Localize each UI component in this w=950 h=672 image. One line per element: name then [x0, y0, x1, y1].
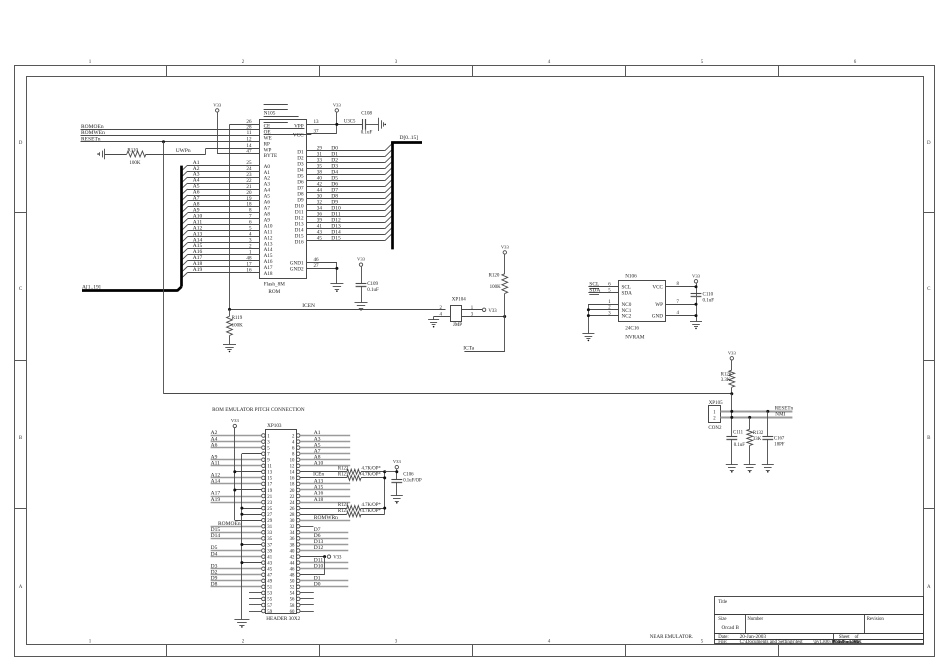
wire V33 down to BYTE row	[217, 112, 219, 153]
svg-text:25: 25	[267, 507, 272, 512]
svg-text:47: 47	[267, 574, 272, 579]
pin 12 circle of XP103	[296, 464, 300, 468]
data bus D[0..15] horizontal segment	[391, 141, 422, 144]
svg-text:ROM EMULATOR PITCH CONNECTION: ROM EMULATOR PITCH CONNECTION	[212, 407, 305, 413]
wire D14 from pin D15 to data bus	[307, 234, 385, 236]
pin 26 circle of XP103	[296, 506, 300, 510]
pin 41 circle of XP103	[262, 555, 266, 559]
wire D12 from XP103 pin 40	[300, 550, 348, 552]
wire XP103 pin 16 stub	[300, 526, 313, 528]
svg-text:Number: Number	[747, 617, 763, 622]
pin 29 circle of XP103	[262, 518, 266, 522]
ground symbol below R119	[223, 344, 236, 346]
pin 4 circle of XP103	[296, 440, 300, 444]
capacitor C106	[391, 479, 402, 481]
pin 42 circle of XP103	[296, 555, 300, 559]
svg-text:11: 11	[267, 465, 272, 470]
svg-text:V33: V33	[333, 103, 342, 108]
svg-text:27: 27	[267, 513, 272, 518]
flash ROM N105 chip body	[260, 120, 307, 279]
svg-text:D4: D4	[211, 551, 218, 557]
wire D11 from pin D12 to data bus	[307, 216, 385, 218]
ground symbol below C106	[391, 495, 403, 497]
wire A13 from address bus to pin A12	[188, 236, 260, 238]
wire A18 from address bus to pin A17	[188, 266, 260, 268]
svg-text:45: 45	[267, 568, 272, 573]
wire A15 from XP103 pin 20	[300, 489, 350, 491]
pin 9 circle of XP103	[262, 458, 266, 462]
resistor R132	[747, 429, 753, 445]
wire D5 from pin D6 to data bus	[307, 180, 385, 182]
wire V33 riser to pin 29	[235, 520, 262, 522]
wire UWPn jog up to WP pin	[205, 148, 207, 154]
junction V33/VPP	[335, 123, 338, 126]
svg-text:D6: D6	[314, 533, 321, 539]
wire A14 to XP103 pin 17	[211, 483, 262, 485]
pin 28 circle of XP103	[296, 512, 300, 516]
pin 11 circle of XP103	[262, 464, 266, 468]
junction V33 pin 19	[233, 489, 236, 492]
junction ground pin 25	[240, 507, 243, 510]
wire A12 from address bus to pin A11	[188, 230, 260, 232]
wire R119 to ground	[229, 336, 231, 345]
pin 8 circle of XP103	[296, 452, 300, 456]
pin 36 circle of XP103	[296, 537, 300, 541]
svg-text:C110: C110	[703, 293, 714, 298]
svg-text:4.7K/OP*: 4.7K/OP*	[362, 473, 382, 478]
capacitor C110	[691, 293, 702, 295]
power symbol V33 at pin 42	[327, 555, 330, 558]
stub wire XP103 pin 56	[300, 598, 314, 600]
wire A17 from address bus to pin A16	[188, 260, 260, 262]
svg-text:44: 44	[290, 561, 295, 566]
junction R122 rail	[383, 470, 386, 473]
svg-text:BYTE: BYTE	[264, 153, 278, 159]
wire GND pin 4	[666, 315, 696, 317]
wire D11 from XP103 pin 44	[300, 562, 348, 564]
pin 16 circle of XP103	[296, 476, 300, 480]
ground symbol below N106	[690, 321, 702, 323]
wire V33 to BYTE pin	[217, 153, 259, 155]
wire CE riser down to ICEN net	[229, 124, 231, 309]
svg-text:A13: A13	[314, 479, 324, 485]
junction V33 pin 13	[233, 470, 236, 473]
junction ground pin 27	[240, 513, 243, 516]
svg-text:13: 13	[267, 471, 272, 476]
wire A8 from XP103 pin 10	[300, 459, 350, 461]
junction R123 rail	[383, 476, 386, 479]
svg-text:D[0..15]: D[0..15]	[400, 135, 419, 141]
svg-text:18PF: 18PF	[774, 443, 784, 448]
wire D9 to XP103 pin 49	[211, 580, 262, 582]
wire D10 from XP103 pin 46	[300, 568, 348, 570]
wire R126 to RESETn junction	[731, 387, 733, 394]
wire D7 from pin D8 to data bus	[307, 192, 385, 194]
wire A16 from XP103 pin 22	[300, 496, 350, 498]
svg-text:Size: Size	[718, 617, 726, 622]
svg-text:Flash_8M: Flash_8M	[264, 282, 285, 288]
svg-text:D15: D15	[211, 527, 221, 533]
stub wire XP103 pin 57	[249, 604, 262, 606]
wire A7 from address bus to pin A6	[188, 200, 260, 202]
pin 50 circle of XP103	[296, 579, 300, 583]
svg-text:A11: A11	[211, 461, 221, 467]
wire D1 from XP103 pin 50	[300, 580, 348, 582]
svg-text:ROM: ROM	[268, 289, 280, 295]
wire RESETn riser down left side	[163, 142, 165, 394]
junction C167 on RESETn	[766, 410, 769, 413]
wire NC2 pin 3	[588, 315, 618, 317]
wire D0 from XP103 pin 52	[300, 586, 348, 588]
wire rail to V33/C106	[385, 471, 397, 473]
pin 39 circle of XP103	[262, 549, 266, 553]
pin 33 circle of XP103	[262, 531, 266, 535]
junction ground pin 37	[240, 543, 243, 546]
svg-text:VCC: VCC	[293, 133, 304, 139]
wire D6 from XP103 pin 36	[300, 538, 348, 540]
svg-text:UWPn: UWPn	[176, 148, 191, 154]
svg-text:59: 59	[267, 610, 272, 615]
wire D4 to XP103 pin 41	[211, 556, 262, 558]
wire A4 from address bus to pin A3	[188, 183, 260, 185]
wire C106 to ground	[396, 482, 398, 496]
wire GND riser to ground	[336, 262, 338, 284]
svg-text:NMI: NMI	[775, 412, 785, 418]
svg-text:R120: R120	[489, 273, 500, 278]
svg-text:45: 45	[317, 236, 323, 242]
svg-text:A: A	[927, 585, 931, 590]
svg-text:ROMWEn: ROMWEn	[81, 130, 105, 136]
svg-text:ICEN: ICEN	[302, 303, 315, 309]
wire D9 from pin D10 to data bus	[307, 204, 385, 206]
svg-text:R119: R119	[232, 316, 243, 321]
svg-text:N105: N105	[264, 111, 276, 117]
wire R122 to pull-up rail	[361, 471, 385, 473]
svg-text:35: 35	[267, 537, 272, 542]
svg-text:16: 16	[290, 477, 295, 482]
svg-text:C167: C167	[774, 437, 785, 442]
svg-text:26: 26	[290, 507, 295, 512]
wire XP103 to R122	[300, 471, 347, 473]
svg-text:R110: R110	[127, 148, 138, 153]
wire ground riser to pin 43	[242, 562, 262, 564]
pin 25 circle of XP103	[262, 506, 266, 510]
pin 40 circle of XP103	[296, 549, 300, 553]
wire D13 from pin D14 to data bus	[307, 228, 385, 230]
wire A10 from XP103 pin 12	[300, 465, 350, 467]
svg-text:49: 49	[267, 580, 272, 585]
wire XP105 pin 2 NMI	[720, 417, 792, 419]
ground symbol below R132	[744, 464, 756, 466]
svg-text:C111: C111	[733, 430, 744, 435]
resistor R110	[127, 151, 146, 157]
svg-text:A1: A1	[314, 430, 321, 436]
svg-text:D5: D5	[211, 545, 218, 551]
svg-text:V33: V33	[333, 555, 342, 560]
svg-text:54: 54	[290, 592, 295, 597]
wire GND2 pin	[307, 268, 337, 270]
wire SDA to pin 5	[588, 292, 618, 294]
wire D0 from pin D1 to data bus	[307, 150, 385, 152]
capacitor C111	[726, 436, 737, 438]
ground symbol below flash GND pins	[330, 283, 343, 285]
svg-text:51: 51	[267, 586, 272, 591]
wire R124 to pull-up rail	[361, 508, 385, 510]
svg-text:0.1uF: 0.1uF	[703, 298, 715, 303]
pin 32 circle of XP103	[296, 525, 300, 529]
svg-text:VCC: VCC	[652, 285, 663, 291]
svg-text:R125: R125	[338, 509, 349, 514]
svg-text:D16: D16	[295, 239, 304, 245]
wire A14 from address bus to pin A13	[188, 242, 260, 244]
pin 60 circle of XP103	[296, 609, 300, 613]
svg-text:U3C5: U3C5	[344, 120, 356, 125]
wire C109 to ground	[361, 286, 363, 303]
svg-text:12: 12	[290, 465, 295, 470]
pin 20 circle of XP103	[296, 488, 300, 492]
wire VCC pin 8 to V33	[666, 286, 696, 288]
wire A13 from XP103 pin 18	[300, 483, 350, 485]
wire ground riser to pin 37	[242, 544, 262, 546]
svg-text:R123: R123	[338, 473, 349, 478]
wire V33 riser pin42 to pin48	[324, 557, 326, 575]
jumper XP104 body	[451, 306, 462, 322]
pin 49 circle of XP103	[262, 579, 266, 583]
svg-text:100K: 100K	[490, 285, 502, 290]
wire CE pin stub	[230, 124, 260, 126]
svg-text:ROMOEn: ROMOEn	[218, 521, 241, 527]
wire A5 from XP103 pin 6	[300, 447, 350, 449]
wire D15 to XP103 pin 33	[211, 532, 262, 534]
wire A2 to XP103 pin 1	[211, 435, 262, 437]
svg-text:GND2: GND2	[290, 266, 304, 272]
wire D8 to XP103 pin 51	[211, 586, 262, 588]
pin 6 circle of XP103	[296, 446, 300, 450]
pin 54 circle of XP103	[296, 591, 300, 595]
pin 3 circle of XP103	[262, 440, 266, 444]
svg-text:16: 16	[246, 267, 252, 273]
wire ROMOEn to XP103 pin 31	[211, 526, 262, 528]
svg-text:D7: D7	[314, 527, 321, 533]
svg-text:D8: D8	[211, 582, 218, 588]
svg-text:A10: A10	[314, 461, 324, 467]
address bus A[1..19] horizontal segment	[82, 289, 178, 292]
svg-text:42: 42	[290, 555, 295, 560]
ground symbol left of R110	[104, 149, 106, 160]
svg-text:46: 46	[290, 568, 295, 573]
wire NMI to R132	[749, 417, 751, 429]
pin 51 circle of XP103	[262, 585, 266, 589]
resistor R120	[502, 274, 508, 294]
wire GND1 pin	[307, 262, 337, 264]
wire NC0 pin 1	[588, 304, 618, 306]
pin 15 circle of XP103	[262, 476, 266, 480]
svg-text:4.7K/OP*: 4.7K/OP*	[362, 467, 382, 472]
svg-text:ICEn: ICEn	[313, 472, 324, 478]
wire RESETn to C167	[767, 411, 769, 436]
pin 56 circle of XP103	[296, 597, 300, 601]
svg-text:A9: A9	[211, 454, 218, 460]
svg-text:NearEmu.sch: NearEmu.sch	[834, 639, 860, 644]
svg-text:41: 41	[267, 555, 272, 560]
pin 21 circle of XP103	[262, 494, 266, 498]
pin 5 circle of XP103	[262, 446, 266, 450]
wire NC1 pin 2	[588, 309, 618, 311]
wire C108 to ground	[366, 124, 379, 126]
svg-text:28: 28	[290, 513, 295, 518]
wire VCC pin to V33 riser	[307, 133, 337, 135]
wire A11 to XP103 pin 11	[211, 465, 262, 467]
svg-text:XP103: XP103	[267, 423, 282, 429]
svg-text:HEADER 30X2: HEADER 30X2	[266, 616, 300, 622]
svg-text:SDA: SDA	[622, 291, 633, 297]
svg-text:GND: GND	[652, 314, 663, 320]
svg-text:36: 36	[290, 537, 295, 542]
pin 57 circle of XP103	[262, 603, 266, 607]
junction rail V33	[395, 470, 398, 473]
wire A3 from address bus to pin A2	[188, 177, 260, 179]
junction NC1	[587, 308, 590, 311]
pin 45 circle of XP103	[262, 567, 266, 571]
wire D5 to XP103 pin 39	[211, 550, 262, 552]
pin 27 circle of XP103	[262, 512, 266, 516]
svg-text:32: 32	[290, 525, 295, 530]
svg-text:D11: D11	[314, 557, 324, 563]
svg-text:31: 31	[267, 525, 272, 530]
svg-text:D15: D15	[331, 236, 341, 242]
wire D6 from pin D7 to data bus	[307, 186, 385, 188]
svg-text:A19: A19	[211, 497, 221, 503]
resistor R119	[227, 316, 233, 335]
wire D14 to XP103 pin 35	[211, 538, 262, 540]
junction GND1/GND2	[335, 267, 338, 270]
svg-text:57: 57	[267, 604, 272, 609]
svg-text:48: 48	[290, 574, 295, 579]
wire riser to XP103 pin 48	[300, 574, 325, 576]
svg-text:XP104: XP104	[452, 298, 466, 303]
svg-text:JMP: JMP	[453, 323, 462, 328]
svg-text:A17: A17	[211, 491, 221, 497]
svg-text:30: 30	[290, 519, 295, 524]
wire A5 from address bus to pin A4	[188, 189, 260, 191]
svg-text:24: 24	[290, 501, 295, 506]
title block column dividers	[745, 614, 747, 633]
pin 58 circle of XP103	[296, 603, 300, 607]
wire A2 from address bus to pin A1	[188, 171, 260, 173]
svg-text:A16: A16	[314, 491, 324, 497]
wire ground riser to pin 27	[242, 514, 262, 516]
wire A1 from XP103 pin 2	[300, 435, 350, 437]
wire ROMWEn to WE pin	[81, 135, 260, 137]
pin 14 circle of XP103	[296, 470, 300, 474]
wire ground riser to pin 25	[242, 508, 262, 510]
pin 52 circle of XP103	[296, 585, 300, 589]
stub wire XP103 pin 59	[249, 611, 262, 613]
svg-text:33: 33	[267, 531, 272, 536]
svg-text:D2: D2	[211, 569, 218, 575]
svg-text:XP105: XP105	[709, 401, 723, 406]
svg-text:Orcad B: Orcad B	[722, 625, 740, 631]
svg-text:RESETn: RESETn	[775, 406, 794, 412]
wire ICEN horizontal	[230, 309, 446, 311]
wire A16 from address bus to pin A15	[188, 254, 260, 256]
stub wire XP103 pin 54	[300, 592, 314, 594]
svg-text:D10: D10	[314, 563, 324, 569]
wire A19 to XP103 pin 23	[211, 502, 262, 504]
svg-text:50: 50	[290, 580, 295, 585]
header XP103 body	[266, 430, 297, 614]
svg-text:0.1uF: 0.1uF	[734, 443, 745, 448]
wire R110 to UWPn jog	[146, 154, 206, 156]
svg-text:V33: V33	[501, 245, 510, 250]
wire ICTa horizontal	[464, 351, 504, 353]
wire D7 from XP103 pin 34	[300, 532, 348, 534]
svg-text:NC2: NC2	[622, 314, 632, 320]
junction ICEN/R119	[228, 308, 231, 311]
svg-text:WP: WP	[655, 302, 663, 308]
wire V33 to C106	[396, 469, 398, 479]
frame column ticks bottom	[166, 644, 168, 656]
junction riser on NMI	[730, 416, 733, 419]
pin 48 circle of XP103	[296, 573, 300, 577]
pin 2 circle of XP103	[296, 434, 300, 438]
svg-text:D12: D12	[314, 545, 324, 551]
junction WP row	[695, 303, 698, 306]
svg-text:NVRAM: NVRAM	[625, 335, 645, 341]
svg-text:Title: Title	[718, 600, 727, 605]
svg-text:39: 39	[267, 549, 272, 554]
wire D15 from pin D16 to data bus	[307, 240, 385, 242]
power symbol V33 at XP104 pin 1	[482, 308, 485, 311]
stub wire XP103 pin 53	[249, 592, 262, 594]
resistor R123	[347, 475, 361, 480]
svg-text:58: 58	[290, 604, 295, 609]
connector XP105 body	[709, 406, 721, 423]
wire A15 from address bus to pin A14	[188, 248, 260, 250]
stub wire XP103 pin 55	[249, 598, 262, 600]
svg-text:10: 10	[290, 459, 295, 464]
pin 37 circle of XP103	[262, 543, 266, 547]
wire D4 from pin D5 to data bus	[307, 174, 385, 176]
wire RESETn to RP pin	[81, 141, 260, 143]
svg-text:18: 18	[290, 483, 295, 488]
frame row ticks left	[15, 212, 27, 214]
resistor R126	[729, 370, 735, 387]
wire ground riser from pin 7	[242, 453, 262, 455]
pin 30 circle of XP103	[296, 518, 300, 522]
svg-text:53: 53	[267, 592, 272, 597]
svg-text:R132: R132	[753, 431, 764, 436]
address bus A[1..19] vertical segment	[180, 166, 183, 287]
wire XP104 pin 1 to V33	[462, 309, 482, 311]
wire C167 to ground	[767, 439, 769, 465]
wire D3 from pin D4 to data bus	[307, 168, 385, 170]
svg-text:VPP: VPP	[294, 124, 304, 130]
capacitor C109	[356, 283, 367, 285]
wire XP104 pin 4 to ground	[434, 316, 451, 318]
svg-text:A5: A5	[314, 442, 321, 448]
wire D1 from pin D2 to data bus	[307, 156, 385, 158]
svg-text:34: 34	[290, 531, 295, 536]
svg-text:17: 17	[267, 483, 272, 488]
svg-text:43: 43	[267, 561, 272, 566]
wire XP103 to R125	[300, 514, 347, 516]
stub wire XP103 pin 58	[300, 604, 314, 606]
pin 46 circle of XP103	[296, 567, 300, 571]
resistor R125	[347, 512, 361, 517]
wire R125 to pull-up rail	[361, 514, 385, 516]
junction VCC/V33	[695, 285, 698, 288]
